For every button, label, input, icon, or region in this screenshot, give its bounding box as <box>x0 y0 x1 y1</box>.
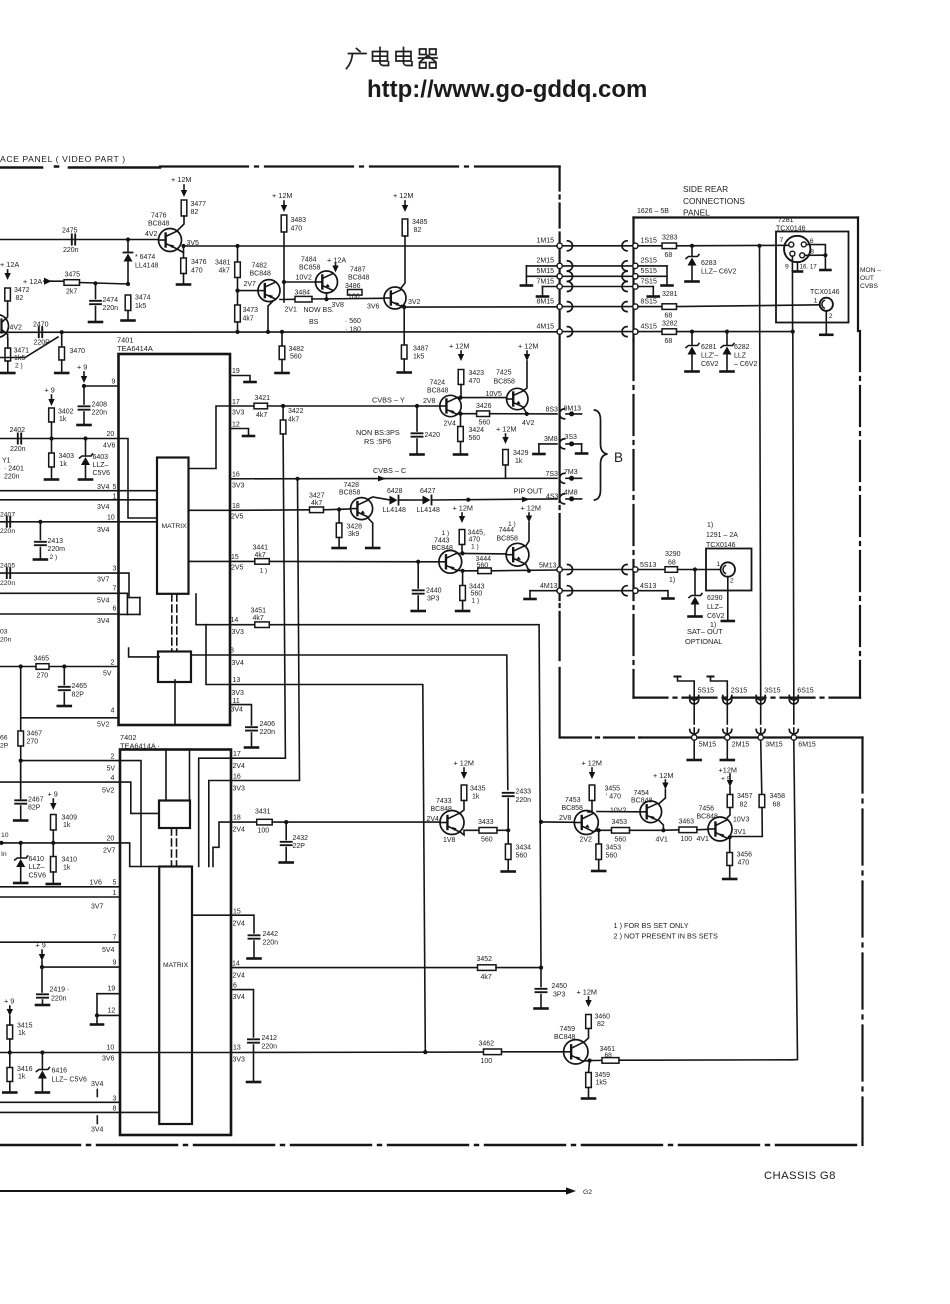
svg-text:3V1: 3V1 <box>734 829 747 836</box>
ground 3403 <box>45 478 58 481</box>
capacitor 2440 <box>413 590 424 593</box>
ground 2413 <box>34 558 47 561</box>
svg-text:7: 7 <box>780 237 784 244</box>
wire 3477 to 7476 collector <box>177 216 184 231</box>
resistor 3475 <box>64 280 80 286</box>
svg-text:03: 03 <box>0 629 8 636</box>
wire 7484 base stub <box>284 281 316 283</box>
resistor 3421 <box>254 403 268 409</box>
plug chevron 3S15 upper2 <box>756 696 765 701</box>
wire 3410 ground link <box>52 872 54 883</box>
svg-text:2442: 2442 <box>263 931 279 938</box>
wire column 5S15 lower <box>693 728 695 735</box>
svg-text:2413: 2413 <box>48 538 64 545</box>
svg-text:3476: 3476 <box>191 259 207 266</box>
svg-text:6: 6 <box>233 983 237 990</box>
svg-text:B: B <box>614 450 623 465</box>
svg-text:9: 9 <box>113 960 117 967</box>
wire 3403 drop <box>51 439 53 454</box>
connector circle 5S13 right <box>633 567 638 572</box>
ground 3443 <box>456 610 469 613</box>
connector circle 1S15 <box>633 243 638 248</box>
svg-text:2 ): 2 ) <box>15 363 23 370</box>
svg-text:1 ): 1 ) <box>260 568 268 575</box>
IC U7402 box <box>120 750 231 1136</box>
ground 2406 <box>245 746 258 749</box>
svg-text:100: 100 <box>258 828 270 835</box>
svg-text:5V4: 5V4 <box>97 598 110 605</box>
svg-text:3V4: 3V4 <box>91 1127 104 1134</box>
svg-text:2V4: 2V4 <box>233 973 246 980</box>
wire 3435 to 7433 collector <box>460 801 465 814</box>
wire 7453 base row <box>541 821 574 823</box>
svg-text:CHASSIS G8: CHASSIS G8 <box>764 1170 836 1182</box>
svg-text:3V2: 3V2 <box>408 299 421 306</box>
svg-text:16: 16 <box>233 774 241 781</box>
ground 3S3 <box>576 452 587 455</box>
resistor 3427 <box>310 507 324 513</box>
wire 3428 ground link <box>338 538 340 547</box>
resistor 3461 <box>602 1058 619 1064</box>
wire 3453h to 7454 emitter <box>630 829 664 831</box>
junction 7424 emitter <box>458 412 462 416</box>
plug symbol 2M15 right <box>568 261 573 271</box>
chassis connector bus horizontal <box>640 736 863 738</box>
junction 7456 emitter <box>728 835 732 839</box>
svg-text:BC848: BC848 <box>427 388 449 395</box>
svg-text:http://www.go-gddq.com: http://www.go-gddq.com <box>367 76 647 103</box>
svg-text:6: 6 <box>113 606 117 613</box>
resistor 3441 <box>255 559 269 565</box>
wire 3470 ground link <box>61 360 63 372</box>
plug symbol 8M15 right <box>568 302 573 312</box>
wire 7456 emitter drop <box>729 837 731 852</box>
svg-text:6410: 6410 <box>29 856 45 863</box>
wire pin12 ground link <box>96 1015 98 1023</box>
svg-text:3462: 3462 <box>479 1041 495 1048</box>
wire 5S15 stub <box>638 275 667 277</box>
wire 7443 emitter link <box>456 569 463 572</box>
junction 7443 collector <box>460 551 464 555</box>
wire 3424 drop <box>460 414 462 427</box>
IC U7402 MATRIX box <box>159 867 192 1125</box>
svg-text:4M13: 4M13 <box>540 583 558 590</box>
svg-text:82: 82 <box>191 209 199 216</box>
switch diagonal <box>0 337 58 358</box>
wire CVBS-C row <box>230 477 557 480</box>
resistor 3459 <box>586 1073 592 1088</box>
connector circle 4S13 left <box>557 588 562 593</box>
svg-text:2402: 2402 <box>10 427 26 434</box>
plug chevron 2S15 upper2 <box>723 696 732 701</box>
svg-text:220n: 220n <box>92 410 108 417</box>
wire IC2 pin5 row <box>0 886 120 888</box>
svg-text:SAT– OUT: SAT– OUT <box>687 627 723 636</box>
svg-text:8S3: 8S3 <box>546 407 559 414</box>
wire 4M13 row <box>530 590 557 592</box>
arrow G2 <box>566 1187 576 1194</box>
wire IC2 pin4 row <box>0 781 120 783</box>
ground 6410 <box>14 882 27 885</box>
wire 2450 drop <box>540 968 542 987</box>
IC1 internal pin3 link <box>119 573 140 598</box>
junction CVBS-C vertical B <box>295 477 299 481</box>
resistor 3455 <box>589 785 595 801</box>
svg-text:2V7: 2V7 <box>103 848 116 855</box>
svg-text:2V1: 2V1 <box>285 307 298 314</box>
svg-text:1: 1 <box>717 561 721 568</box>
RCA connector SAT circle <box>721 562 735 576</box>
svg-text:3281: 3281 <box>662 291 678 298</box>
wire 7425 collector supply <box>523 361 527 391</box>
svg-text:OPTIONAL: OPTIONAL <box>685 637 722 646</box>
svg-text:6427: 6427 <box>420 488 436 495</box>
ground 3487 <box>398 371 411 374</box>
svg-text:MATRIX: MATRIX <box>162 523 188 530</box>
junction 3473 bus <box>235 330 239 334</box>
wire 7M3 stub <box>566 477 582 479</box>
capacitor 2433 <box>503 793 514 796</box>
wire 6410 ground link <box>20 867 22 882</box>
svg-text:4k7: 4k7 <box>255 552 266 559</box>
wire 7S15 ground drop <box>652 287 654 296</box>
arrow on CVBS-C row <box>378 476 386 482</box>
svg-text:3465: 3465 <box>34 656 50 663</box>
IC1 internal pin13 link <box>206 625 230 685</box>
plug symbol 8M13 <box>560 409 565 419</box>
bus 8M15 <box>404 306 557 308</box>
IC2 internal pin20 link <box>120 843 159 867</box>
zener 6283 <box>688 258 697 266</box>
resistor 3463 <box>679 827 697 833</box>
svg-text:7444: 7444 <box>499 527 515 534</box>
resistor 3472 <box>5 288 11 301</box>
wire 7459 emitter link <box>584 1060 590 1062</box>
connector circle 4M15 <box>557 329 562 334</box>
wire PIP OUT row <box>432 499 557 500</box>
svg-text:3422: 3422 <box>288 408 304 415</box>
svg-text:G2: G2 <box>583 1189 592 1196</box>
svg-text:470: 470 <box>191 268 203 275</box>
capacitor 2402 <box>18 434 21 444</box>
svg-text:+ 12M: + 12M <box>577 988 597 997</box>
svg-text:270: 270 <box>27 739 39 746</box>
svg-text:6428: 6428 <box>387 488 403 495</box>
svg-text:68: 68 <box>665 252 673 259</box>
wire pin19 stub <box>230 376 250 381</box>
svg-text:8: 8 <box>810 248 814 255</box>
DIN pin 9 wire down to 4S15 row <box>791 256 793 331</box>
svg-text:3290: 3290 <box>665 551 681 558</box>
wire 7454 emitter link <box>659 820 664 830</box>
svg-text:TEA6414A: TEA6414A <box>117 344 153 353</box>
zener 6290 <box>691 597 700 605</box>
transistor 7444 <box>506 543 529 566</box>
ground 3434 <box>502 870 515 873</box>
svg-text:BC858: BC858 <box>562 805 584 812</box>
plug symbol 1M15 right <box>568 241 573 251</box>
svg-text:22P: 22P <box>293 843 306 850</box>
capacitor 2474 <box>90 301 101 304</box>
svg-text:2V8: 2V8 <box>559 815 572 822</box>
svg-text:7425: 7425 <box>496 370 512 377</box>
svg-text:560: 560 <box>477 563 489 570</box>
wire 6403 drop <box>85 439 87 457</box>
wire pin14 row a <box>230 624 255 626</box>
transistor 7454 <box>640 801 662 823</box>
svg-text:CVBS – Y: CVBS – Y <box>372 396 405 405</box>
svg-text:18: 18 <box>232 503 240 510</box>
resistor 3487 <box>401 345 407 359</box>
svg-text:220n: 220n <box>51 996 67 1003</box>
svg-text:3V3: 3V3 <box>232 690 245 697</box>
capacitor 2465 <box>59 687 70 690</box>
svg-text:+ 12M: + 12M <box>496 425 516 434</box>
wire 2474 drop <box>95 283 97 298</box>
wire 5M15 stub <box>526 275 557 277</box>
wire 4M13 ground hook <box>529 591 531 598</box>
svg-text:7428: 7428 <box>344 482 360 489</box>
svg-text:3S3: 3S3 <box>565 434 578 441</box>
wire column 2S15 lower <box>726 728 728 735</box>
ground 3428 <box>333 547 346 550</box>
wire 7S15 stub <box>638 286 653 288</box>
svg-text:3409: 3409 <box>62 815 78 822</box>
wire 3462 to 7459 base <box>502 1051 564 1053</box>
svg-text:3V7: 3V7 <box>97 577 110 584</box>
wire 3461 to 6M15 vertical <box>619 1059 792 1061</box>
resistor 3485 <box>402 219 408 236</box>
capacitor 2467 <box>15 800 26 803</box>
svg-text:3415: 3415 <box>17 1023 33 1030</box>
svg-text:7456: 7456 <box>699 806 715 813</box>
junction pin12 tie <box>95 1013 99 1017</box>
junction 3434 top <box>506 828 510 832</box>
resistor 3443 <box>460 586 466 601</box>
svg-text:3463: 3463 <box>679 819 695 826</box>
connector circle 8S15 <box>633 304 638 309</box>
panel box left edge <box>632 218 634 341</box>
diode 6474 LL4148 <box>124 254 133 262</box>
svg-text:2M15: 2M15 <box>537 258 555 265</box>
wire 2S15 stub <box>638 265 667 267</box>
junction 7453 base <box>539 820 543 824</box>
transistor 7443 <box>439 550 462 573</box>
wire 6474 diode link <box>127 240 129 253</box>
wire 1S15 down to 3S15 column <box>760 246 761 694</box>
svg-text:3470: 3470 <box>70 348 86 355</box>
svg-text:2420: 2420 <box>425 432 441 439</box>
svg-text:7443: 7443 <box>434 538 450 545</box>
ground 3453v <box>592 870 605 873</box>
svg-text:3426: 3426 <box>476 403 492 410</box>
tick above pin3 <box>96 1090 98 1097</box>
vertical 3422 to IC2 pin17 <box>231 434 285 758</box>
zener 6403 <box>81 457 90 465</box>
wire 3474 to ground <box>127 311 129 320</box>
junction 4S15 DIN pin9 <box>791 330 795 334</box>
wire 6281 to ground <box>691 355 693 371</box>
wire 2467 drop <box>20 761 22 798</box>
arrow on PIP row <box>522 497 530 503</box>
svg-text:3V7: 3V7 <box>91 904 104 911</box>
wire 2413 ground link <box>39 548 41 559</box>
svg-text:82: 82 <box>597 1021 605 1028</box>
svg-text:470: 470 <box>738 860 750 867</box>
svg-text:3458: 3458 <box>770 793 786 800</box>
resistor 3428 <box>336 523 342 538</box>
svg-text:3M8: 3M8 <box>544 436 558 443</box>
wire 3453v drop <box>598 830 600 844</box>
junction 2408 <box>82 384 86 388</box>
wire 3481 to 7482 base <box>238 278 259 291</box>
wire 6410 drop <box>20 843 22 858</box>
svg-text:TCX0146: TCX0146 <box>810 289 840 296</box>
svg-text:+ 12M: + 12M <box>171 175 191 184</box>
svg-text:17: 17 <box>232 399 240 406</box>
svg-text:470: 470 <box>291 226 303 233</box>
resistor 3451 <box>255 622 269 628</box>
svg-text:2k7: 2k7 <box>66 289 77 296</box>
svg-text:7484: 7484 <box>301 257 317 264</box>
svg-text:2S15: 2S15 <box>731 688 747 695</box>
ground 2440 <box>412 610 425 613</box>
wire 3457 to 7456 collector <box>728 808 731 818</box>
svg-text:3V4: 3V4 <box>97 618 110 625</box>
wire 7433 emitter link <box>460 830 480 835</box>
resistor 3415 <box>7 1025 13 1039</box>
svg-text:2412: 2412 <box>262 1035 278 1042</box>
transistor 7487 <box>384 287 406 309</box>
wire 3403 ground link <box>51 467 53 478</box>
svg-text:3457: 3457 <box>737 793 753 800</box>
junction 7454 emitter <box>661 828 665 832</box>
svg-text:1k: 1k <box>60 461 68 468</box>
wire 3471 ground link <box>7 361 9 372</box>
svg-text:9: 9 <box>112 379 116 386</box>
diode 6428 LL4148 <box>390 496 398 505</box>
svg-text:6403: 6403 <box>93 454 109 461</box>
wire pin2 row <box>0 666 119 668</box>
resistor 3481 <box>235 262 241 278</box>
connector circle 4S13 right <box>633 588 638 593</box>
svg-text:PIP OUT: PIP OUT <box>514 487 544 496</box>
resistor 3477 <box>181 200 187 216</box>
svg-text:100: 100 <box>481 1058 493 1065</box>
wire 3453h row <box>599 829 612 831</box>
connector circle 4S15 <box>633 329 638 334</box>
svg-text:1S15: 1S15 <box>641 238 657 245</box>
wire 3473 drop <box>237 291 239 305</box>
transistor 7428 <box>351 498 373 520</box>
wire 3434 ground link <box>507 860 509 871</box>
svg-text:12: 12 <box>232 422 240 429</box>
capacitor 2407 <box>7 517 10 527</box>
wire 2432 drop <box>285 822 287 839</box>
ground 2408 <box>78 424 91 427</box>
svg-text:3: 3 <box>113 566 117 573</box>
wire 3402 to pin20 row <box>51 422 53 439</box>
wire 8M15 to 8S15 <box>562 306 632 308</box>
junction 2432 <box>284 820 288 824</box>
connector circle 5S13 left <box>557 567 562 572</box>
svg-text:3472: 3472 <box>14 287 30 294</box>
svg-text:560: 560 <box>469 435 481 442</box>
plug symbol 5S13 a <box>568 565 573 575</box>
wire 8S15 to resistor 3281 <box>638 306 662 308</box>
svg-text:2408: 2408 <box>92 402 108 409</box>
wire 6M15 down to 3461 row <box>792 740 798 1060</box>
svg-text:+ 9: + 9 <box>4 997 14 1006</box>
connector circle 1M15 <box>557 243 562 248</box>
svg-text:2V4: 2V4 <box>233 921 246 928</box>
svg-text:– C6V2: – C6V2 <box>734 361 757 368</box>
svg-text:3445,: 3445, <box>468 530 486 537</box>
wire 3415 to pin10 row <box>9 1016 11 1025</box>
svg-text:560: 560 <box>606 853 618 860</box>
IC1 internal pin8 link <box>191 654 230 656</box>
wire 3472 to transistor <box>7 301 9 316</box>
DIN center stub wire <box>797 262 799 271</box>
svg-text:4: 4 <box>111 708 115 715</box>
ground 2420 <box>411 453 424 456</box>
plug chevron 2S15 lower <box>723 730 732 735</box>
resistor 3402 <box>49 408 55 422</box>
resistor 3457 <box>727 795 733 808</box>
wire 3424 ground link <box>460 442 462 454</box>
DIN pin 8 wire <box>805 254 826 256</box>
wire 2420 drop <box>416 406 418 431</box>
wire 6416 ground link <box>41 1079 43 1092</box>
connector circle 8M15 <box>557 304 562 309</box>
wire 3S3 ground hook <box>581 444 583 452</box>
junction pin13 3462 <box>423 1050 427 1054</box>
wire 1M15 to 1S15 <box>562 245 632 247</box>
wire 7425 emitter link <box>523 407 527 414</box>
svg-text:2: 2 <box>111 660 115 667</box>
svg-text:BS: BS <box>309 319 319 326</box>
wire 3476 drop <box>183 246 185 258</box>
wire 3476 to ground <box>183 274 185 284</box>
svg-text:3460: 3460 <box>595 1014 611 1021</box>
capacitor 2412 <box>248 1039 259 1042</box>
IC U7402 upper box stubs <box>166 750 190 801</box>
svg-text:3P3: 3P3 <box>553 992 566 999</box>
left connector border vertical upper <box>558 167 560 238</box>
ground 3476 <box>177 283 190 286</box>
svg-text:3M15: 3M15 <box>765 742 783 749</box>
plug symbol 4M15 right <box>568 327 573 337</box>
svg-text:6290: 6290 <box>707 595 723 602</box>
svg-text:1626 – 5B: 1626 – 5B <box>637 208 669 215</box>
svg-text:BC848: BC848 <box>348 275 370 282</box>
header chinese title 广电电器 (vector strokes) <box>347 48 438 69</box>
wire pin4 row <box>21 717 119 719</box>
svg-text:3V4: 3V4 <box>233 994 246 1001</box>
wire 6283 drop <box>691 246 693 256</box>
IC1 internal pin6 link <box>119 613 140 615</box>
RCA MON ground <box>820 333 832 336</box>
svg-text:3475: 3475 <box>65 272 81 279</box>
svg-text:1 ) FOR BS SET ONLY: 1 ) FOR BS SET ONLY <box>614 921 689 930</box>
svg-text:3S15: 3S15 <box>764 688 780 695</box>
wire IC2 pin19 row <box>97 993 120 995</box>
wire 3456 ground link <box>729 866 731 878</box>
wire 2432 ground link <box>285 848 287 862</box>
svg-text:SIDE REAR: SIDE REAR <box>683 184 728 194</box>
plug symbol 3S3 <box>560 439 565 449</box>
ground 6282 <box>721 370 734 373</box>
